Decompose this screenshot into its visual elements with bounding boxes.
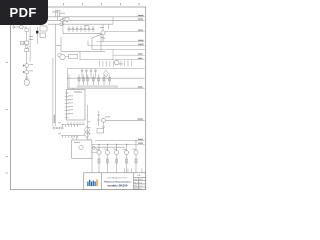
label box near bus: [65, 18, 69, 21]
motor M2: [60, 54, 65, 59]
ignition switch contacts: [61, 19, 64, 22]
relay coil circle inside box: [79, 145, 83, 149]
output row leads up: [99, 141, 136, 151]
wire box top to pin bus: [72, 136, 74, 141]
wire vertical x92: [91, 144, 93, 172]
wire motor to box: [65, 56, 68, 58]
zone tick marks top margin: [26, 3, 140, 5]
logo bar orange: [96, 180, 97, 187]
fuse symbols above top bus: [55, 11, 61, 21]
svg-text:Esc: Esc: [134, 185, 137, 187]
label box T1: [40, 26, 47, 31]
transistor Q2: [88, 24, 105, 49]
label box T2: [40, 33, 46, 38]
wire link box to transistor row: [92, 152, 97, 154]
wire vertical x101: [100, 34, 102, 52]
svg-text:Dib: Dib: [134, 179, 137, 181]
sub-circuit box: [72, 140, 92, 158]
wire right bus I: [67, 87, 145, 89]
wire IC top to bus I: [72, 88, 74, 89]
resistor row between bus H and I: [78, 75, 111, 86]
wire right bus H: [67, 77, 145, 79]
wire lower bus J: [95, 140, 145, 142]
wire bus D: [63, 33, 101, 35]
table row lines: [134, 177, 146, 179]
contact circle 1: [25, 64, 29, 68]
page background: [0, 0, 149, 198]
output transistor row: [97, 151, 138, 155]
table texts: [134, 175, 143, 190]
logo bars blue: [87, 180, 95, 186]
diode bridge diamond: [104, 70, 109, 77]
wire left chain vertical 1: [26, 27, 28, 86]
left feed wire y27: [13, 25, 38, 85]
contact circle 2: [25, 70, 29, 74]
svg-text:1.0: 1.0: [139, 182, 142, 184]
pin label band: [77, 85, 118, 88]
junction dots on lower bus: [98, 140, 136, 145]
fuse F1 circle on left feed: [20, 25, 24, 29]
wire lower bus K: [92, 143, 145, 145]
page border frame: [11, 7, 146, 190]
svg-text:Rev: Rev: [134, 182, 137, 184]
bridge rectifier X1: [84, 126, 90, 138]
divider table cell: [133, 173, 135, 190]
transistor Q1: [58, 53, 62, 57]
extra stubs above title block: [125, 169, 143, 173]
wire Q4 down: [102, 122, 105, 133]
wire vertical x113: [112, 17, 114, 24]
right mid wires with labels: [88, 31, 145, 59]
title block outline: [84, 173, 146, 190]
wire vertical x63: [62, 17, 64, 34]
wire left chain vertical 2: [29, 27, 31, 62]
zone tick marks left margin: [6, 63, 9, 174]
svg-text:1:1: 1:1: [139, 185, 142, 187]
small diode right of box: [92, 147, 101, 154]
junction dots: [62, 24, 63, 25]
wire lower bus L: [92, 146, 125, 148]
output row leads down with resistors: [98, 155, 137, 173]
contact node dot 2: [23, 71, 25, 73]
svg-text:modelo SK200: modelo SK200: [108, 186, 129, 188]
diode stack D5: [97, 111, 100, 126]
pin row bus 2 under IC: [61, 136, 85, 139]
switch ticks above motor: [25, 77, 28, 78]
wire vertical pair x67: [66, 69, 68, 89]
relay K1 box on chain: [25, 41, 29, 45]
right side bus with stubs: [88, 105, 91, 141]
connector pigtails bottom: [53, 127, 64, 129]
regulator box VR1: [97, 129, 104, 134]
tiny reference labels: [29, 12, 137, 150]
wire bus E: [61, 50, 105, 52]
divider logo cell: [101, 173, 103, 190]
tiny vertical net labels: [54, 115, 55, 124]
capacitor row under bus C: [67, 26, 95, 32]
small box at chain top: [25, 29, 28, 32]
wire vertical x108 to diode row: [108, 24, 110, 29]
wire vertical x80: [79, 51, 81, 59]
center vertical bus pair: [53, 24, 61, 126]
tick row on bus F: [99, 61, 131, 67]
wire bus C: [48, 23, 113, 25]
IC U1 pin stubs: [65, 93, 69, 118]
net labels right edge: [138, 15, 144, 144]
transistor Q3 on bus F: [114, 60, 119, 65]
dark component mark: [36, 31, 39, 34]
small box left of chain: [21, 41, 24, 44]
PDF badge: [0, 0, 48, 25]
transistor Q4 on +12V bus: [102, 118, 106, 122]
contact node dot 1: [23, 65, 25, 67]
wire right bus F: [80, 59, 145, 61]
switch arms: [62, 17, 65, 23]
table inner vertical: [138, 178, 140, 190]
wire mid bus +12V: [104, 119, 145, 121]
switch box on chain: [25, 49, 29, 52]
wire right bus G: [67, 68, 145, 70]
pin row bus 1 under IC: [61, 122, 85, 127]
wire stub x37: [37, 27, 39, 44]
wire top bus A: [48, 16, 145, 18]
svg-text:DIAGRAMA ELECTRICO: DIAGRAMA ELECTRICO: [108, 177, 128, 180]
svg-text:1/1: 1/1: [139, 188, 142, 190]
IC U1 box: [67, 90, 86, 121]
motor loop M1: [24, 79, 29, 85]
label box for M2: [69, 55, 78, 59]
lamp symbol circle: [25, 45, 28, 48]
svg-text:Plataformas Rotoexcavadoras: Plataformas Rotoexcavadoras: [104, 181, 131, 184]
diode row between bus G and H: [81, 70, 96, 79]
wire top bus B: [48, 19, 145, 21]
